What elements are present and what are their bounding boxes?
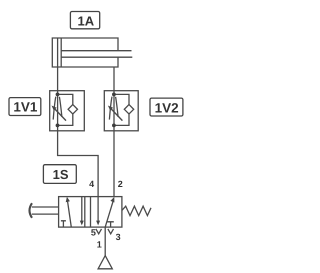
svg-text:1A: 1A	[77, 13, 94, 28]
wire valve port 1 to air supply	[104, 227, 106, 256]
valve left position: blocked port 5	[61, 221, 66, 227]
wire cylinder left port to 1V1	[57, 67, 59, 91]
exhaust port 5 triangle	[96, 229, 102, 234]
wire cylinder right port to 1V2	[113, 67, 115, 91]
svg-text:1V2: 1V2	[155, 101, 179, 116]
valve 1S body	[59, 197, 122, 228]
compressed air supply	[98, 256, 112, 269]
label box 1S	[43, 165, 76, 184]
valve left position: flow 2 to 3 arrow	[80, 197, 84, 226]
flow control valve 1V2	[104, 91, 138, 131]
wire 1V1 to valve port 4	[58, 131, 99, 197]
svg-text:5: 5	[91, 228, 96, 238]
valve right position: blocked port 3	[107, 222, 113, 227]
valve right position: flow 1 to 2 arrow	[105, 197, 114, 227]
svg-text:1V1: 1V1	[13, 100, 38, 115]
label box 1V2	[150, 98, 183, 116]
valve left position: flow 1 to 4 arrow	[66, 197, 72, 227]
flow control valve 1V1	[50, 91, 85, 131]
svg-text:2: 2	[118, 179, 123, 189]
valve left position: passage line	[84, 197, 86, 228]
spring return	[122, 206, 151, 215]
svg-text:1S: 1S	[53, 167, 69, 182]
svg-text:1: 1	[97, 240, 102, 250]
label box 1V1	[9, 98, 41, 116]
svg-text:4: 4	[89, 179, 94, 189]
label box 1A	[70, 12, 99, 29]
valve right position: flow 4 to 5 arrow	[96, 197, 100, 226]
wire 1V2 to valve port 2	[113, 131, 115, 197]
pushbutton actuator	[30, 203, 59, 218]
cylinder 1A body	[52, 38, 118, 67]
exhaust port 3 triangle	[108, 229, 114, 234]
cylinder piston rod	[61, 51, 132, 58]
cylinder piston	[58, 38, 62, 67]
svg-text:3: 3	[116, 232, 121, 242]
